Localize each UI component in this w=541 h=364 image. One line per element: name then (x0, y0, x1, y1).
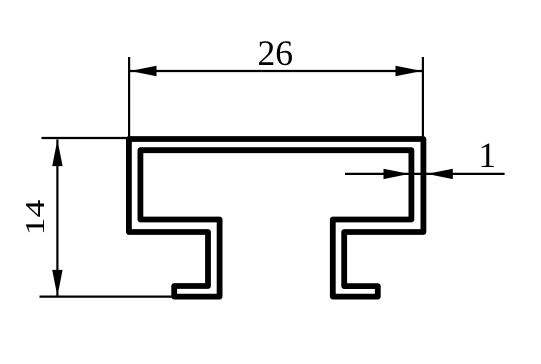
arrowhead left of dim 26 (130, 66, 156, 76)
arrowhead pointing right at inner wall (384, 169, 410, 179)
dimension line 14 (56, 140, 58, 297)
arrowhead right of dim 26 (396, 66, 422, 76)
svg-text:14: 14 (20, 200, 50, 236)
extension line top for dim 14 (42, 137, 128, 139)
profile outline (aluminium channel cross-section) (129, 139, 424, 297)
dimension line 26 (130, 70, 422, 72)
arrowhead down of dim 14 (52, 270, 62, 296)
svg-text:1: 1 (478, 135, 496, 175)
extension line right for dim 26 (422, 57, 424, 136)
svg-text:26: 26 (258, 33, 294, 73)
arrowhead up of dim 14 (52, 140, 62, 166)
extension line left for dim 26 (128, 57, 130, 136)
extension line bottom for dim 14 (40, 296, 173, 298)
arrowhead pointing left at outer wall (427, 169, 453, 179)
wall thickness dim 1: leader line (345, 173, 505, 175)
